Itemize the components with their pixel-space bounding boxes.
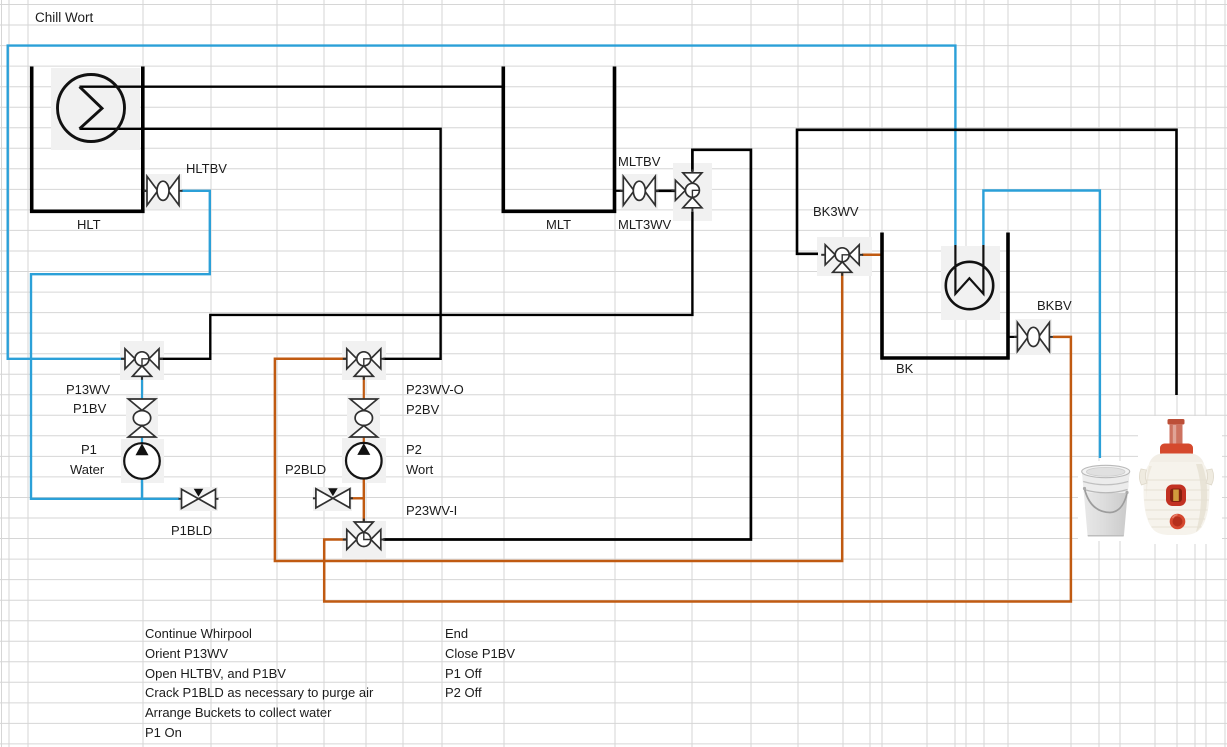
svg-text:P1: P1	[81, 442, 97, 457]
svg-text:P2: P2	[406, 442, 422, 457]
svg-text:BK3WV: BK3WV	[813, 204, 859, 219]
svg-text:P2BV: P2BV	[406, 402, 440, 417]
svg-text:End: End	[445, 626, 468, 641]
valve BKBV ball valve	[1014, 322, 1053, 351]
svg-text:MLTBV: MLTBV	[618, 154, 661, 169]
svg-text:BK: BK	[896, 361, 914, 376]
svg-text:Open HLTBV, and P1BV: Open HLTBV, and P1BV	[145, 666, 286, 681]
svg-text:Arrange Buckets to collect wat: Arrange Buckets to collect water	[145, 705, 332, 720]
heat exchanger coil U1 in HLT (HERMS coil)	[58, 75, 125, 142]
svg-text:HLTBV: HLTBV	[186, 161, 227, 176]
photo fermenter with red cap	[1138, 416, 1222, 544]
svg-text:P1 On: P1 On	[145, 725, 182, 740]
svg-text:Wort: Wort	[406, 462, 434, 477]
svg-text:P1 Off: P1 Off	[445, 666, 482, 681]
valve P13WV three-way valve	[121, 349, 163, 380]
wire orange BK3WV right port to BK wall	[862, 254, 883, 257]
wire black feed to BK3WV left port from top header	[797, 130, 1177, 395]
svg-text:BKBV: BKBV	[1037, 298, 1072, 313]
svg-text:MLT: MLT	[546, 217, 571, 232]
wire orange P23WV-O left port loop to BK3WV bottom port	[275, 273, 842, 561]
svg-text:Chill Wort: Chill Wort	[35, 10, 94, 25]
pump P1 water pump	[124, 443, 160, 479]
chiller coil U2 in BK	[946, 245, 993, 309]
wire blue from HLTBV down-left to pump suction run	[31, 191, 210, 499]
svg-text:Crack P1BLD as necessary to pu: Crack P1BLD as necessary to purge air	[145, 685, 374, 700]
svg-text:P23WV-O: P23WV-O	[406, 382, 464, 397]
vessel HLT (hot liquor tank) walls	[32, 67, 143, 212]
wire black HLT coil upper pipe to MLT	[80, 85, 504, 87]
svg-text:P23WV-I: P23WV-I	[406, 503, 457, 518]
vessel BK (boil kettle) walls	[882, 233, 1008, 359]
wire blue P1BV to P1 pump	[141, 437, 143, 444]
svg-text:P2 Off: P2 Off	[445, 685, 482, 700]
photo white bucket	[1078, 461, 1138, 541]
valve MLT3WV three-way valve	[671, 169, 702, 211]
svg-text:P13WV: P13WV	[66, 382, 110, 397]
svg-text:P1BLD: P1BLD	[171, 523, 212, 538]
wire black BK outlet stub to BKBV	[1008, 336, 1017, 338]
svg-text:Close P1BV: Close P1BV	[445, 646, 515, 661]
wire black HLT coil lower pipe to P23WV-O right port	[80, 129, 441, 359]
wire orange P2 pump discharge to P23WV-I top port	[363, 479, 365, 523]
svg-text:HLT: HLT	[77, 217, 101, 232]
valve P1BV ball valve	[128, 399, 155, 437]
wire orange P2BLD stub	[350, 497, 365, 499]
svg-text:P1BV: P1BV	[73, 401, 107, 416]
wire black P13WV right port to MLT3WV bottom port	[159, 212, 692, 359]
valve P23WV-I three-way valve	[343, 519, 385, 550]
wire blue chiller outlet to bucket	[983, 191, 1100, 459]
valve P1BLD bleed valve	[179, 489, 219, 509]
svg-text:Orient P13WV: Orient P13WV	[145, 646, 228, 661]
svg-text:Water: Water	[70, 462, 105, 477]
vessel MLT (mash lauter tun) walls	[503, 67, 614, 212]
wire orange P2BV to P2 pump	[363, 437, 365, 443]
symbol background patches	[51, 68, 1052, 559]
svg-text:P2BLD: P2BLD	[285, 462, 326, 477]
valve P2BV ball valve	[350, 399, 377, 437]
valve HLTBV ball valve	[144, 176, 183, 205]
pump P2 wort pump	[346, 443, 382, 479]
wire black MLTBV to MLT3WV connector	[655, 190, 675, 193]
svg-text:Continue Whirpool: Continue Whirpool	[145, 626, 252, 641]
wire black MLT outlet stub to MLTBV	[615, 190, 624, 192]
wire black MLT3WV top port to P23WV-I right port	[383, 150, 751, 540]
wire orange P23WV-O bottom port to P2BV	[363, 376, 365, 400]
wire orange BKBV right to P23WV-I left port loop	[324, 337, 1071, 602]
wire black HLT outlet stub to HLTBV	[143, 190, 147, 192]
wire blue P1 pump discharge stub	[141, 479, 143, 499]
valve P2BLD bleed valve	[313, 488, 353, 508]
valve BK3WV three-way valve	[821, 245, 863, 276]
valve P23WV-O three-way valve	[343, 349, 385, 380]
wire blue water supply: HLT top loop to BK chiller inlet and P13WV	[8, 46, 956, 359]
svg-text:MLT3WV: MLT3WV	[618, 217, 672, 232]
valve MLTBV ball valve	[620, 176, 659, 205]
wire blue P13WV to P1BV	[141, 376, 143, 400]
